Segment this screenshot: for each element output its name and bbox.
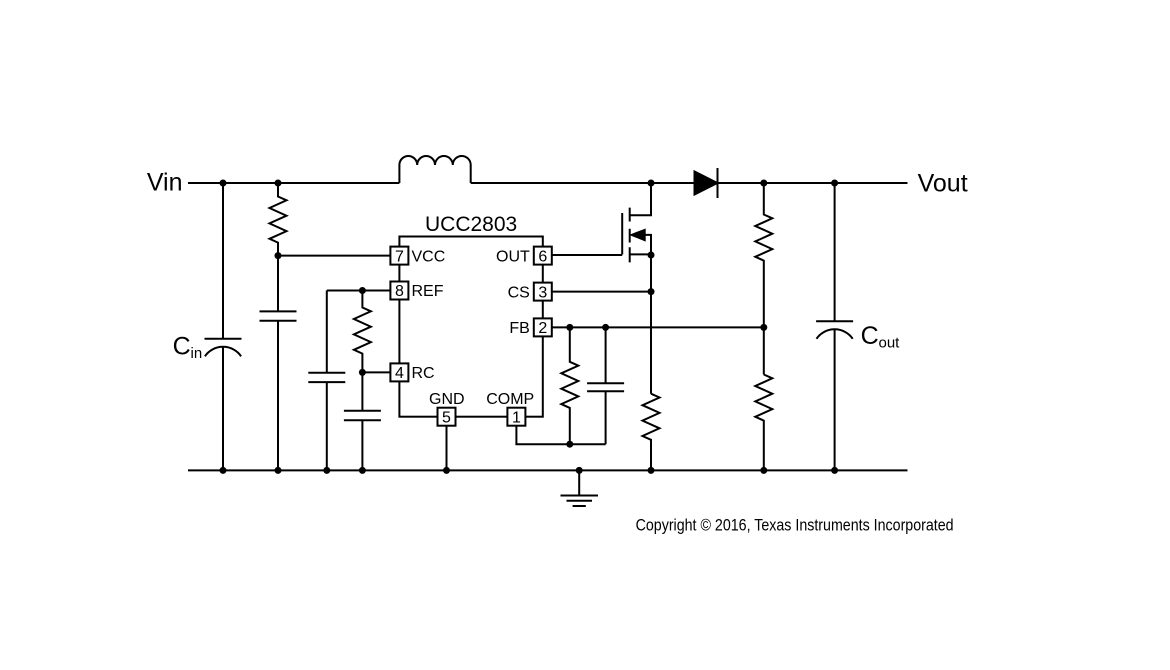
- node RC junction: [359, 369, 366, 376]
- wire GND pin 5 to rail: [446, 426, 448, 471]
- svg-text:REF: REF: [412, 283, 444, 300]
- node comp bottom junction: [566, 441, 573, 448]
- node Vin-Cin junction: [220, 180, 227, 187]
- svg-text:Vout: Vout: [918, 170, 968, 198]
- wire ground rail: [188, 469, 908, 471]
- capacitor VCC bypass: [260, 311, 297, 320]
- pin 4 box: [390, 363, 408, 381]
- svg-text:UCC2803: UCC2803: [425, 213, 517, 236]
- junction dots: [220, 180, 839, 474]
- op-amp U1 UCC2803 outline: [399, 237, 542, 417]
- node rail Cout junction: [831, 467, 838, 474]
- node FB-CF junction: [602, 324, 609, 331]
- pin 8 box: [390, 282, 408, 300]
- pin boxes: [390, 247, 551, 426]
- node Vout Cout junction: [831, 180, 838, 187]
- wire COMP pin 1 down and right: [516, 426, 605, 445]
- node rail divider junction: [760, 467, 767, 474]
- svg-text:OUT: OUT: [496, 248, 530, 265]
- svg-text:VCC: VCC: [412, 248, 446, 265]
- node VCC junction: [275, 252, 282, 259]
- capacitor Cout: [834, 183, 836, 321]
- capacitor Cin: [222, 183, 224, 339]
- pin 1 box: [507, 408, 525, 426]
- pin numbers and labels: [395, 248, 547, 426]
- resistor comp RF: [561, 327, 578, 444]
- svg-text:5: 5: [442, 409, 451, 426]
- capacitor comp CF: [587, 327, 624, 444]
- svg-text:CS: CS: [508, 284, 530, 301]
- wire VCC node to pin 7: [278, 255, 390, 257]
- ground symbol: [561, 470, 599, 506]
- capacitor REF bypass: [308, 291, 345, 471]
- node FB-RF junction: [566, 324, 573, 331]
- pin 2 box: [534, 318, 552, 336]
- wire VCC cap to ground rail: [277, 321, 279, 471]
- pin 6 box: [534, 247, 552, 265]
- wire FB pin 2 to divider: [552, 326, 764, 328]
- pin 7 box: [390, 247, 408, 265]
- resistor current sense: [643, 394, 660, 471]
- pin 5 box: [438, 408, 456, 426]
- node drain junction: [648, 180, 655, 187]
- node rail GND-pin junction: [443, 467, 450, 474]
- pin 3 box: [534, 283, 552, 301]
- resistor divider lower: [755, 375, 772, 471]
- svg-text:in: in: [191, 345, 203, 362]
- capacitor CT (RC to ground): [344, 411, 381, 471]
- wire inductor to diode anode: [471, 182, 695, 184]
- svg-text:C: C: [173, 333, 191, 361]
- svg-text:FB: FB: [509, 320, 529, 337]
- svg-text:COMP: COMP: [486, 391, 534, 408]
- node Vin-R junction: [275, 180, 282, 187]
- node rail sense junction: [648, 467, 655, 474]
- svg-text:7: 7: [395, 248, 404, 265]
- node CS junction: [648, 288, 655, 295]
- svg-text:GND: GND: [429, 391, 465, 408]
- wire top rail Vin to inductor: [188, 182, 399, 184]
- node rail REF-cap junction: [323, 467, 330, 474]
- inductor L1: [399, 156, 470, 183]
- svg-text:RC: RC: [412, 365, 435, 382]
- svg-text:2: 2: [538, 320, 547, 337]
- svg-text:3: 3: [538, 284, 547, 301]
- node Vout divider junction: [760, 180, 767, 187]
- resistor RT (REF to RC): [354, 291, 371, 411]
- wire CS pin 3 to source: [552, 291, 651, 293]
- svg-text:Copyright © 2016, Texas Instru: Copyright © 2016, Texas Instruments Inco…: [636, 515, 954, 534]
- node rail Cin junction: [220, 467, 227, 474]
- svg-text:out: out: [879, 334, 901, 351]
- wire REF pin 8 to left: [327, 290, 391, 292]
- node rail earth junction: [576, 467, 583, 474]
- diode D1: [695, 172, 718, 195]
- transistor Q1 MOSFET: [621, 213, 623, 255]
- wire diode cathode to Vout: [718, 182, 908, 184]
- svg-text:1: 1: [512, 409, 521, 426]
- node REF junction: [359, 287, 366, 294]
- node FB tap junction: [760, 324, 767, 331]
- wire RC node to pin 4: [362, 371, 390, 373]
- wire OUT pin 6 to gate: [552, 254, 622, 256]
- svg-text:6: 6: [538, 248, 547, 265]
- resistor VCC bias: [270, 183, 287, 311]
- wire source node down through sense resistor: [650, 255, 652, 394]
- node rail VCC-cap junction: [275, 467, 282, 474]
- svg-text:4: 4: [395, 365, 404, 382]
- resistor divider upper: [755, 183, 772, 375]
- svg-text:Vin: Vin: [147, 169, 183, 197]
- node rail CT junction: [359, 467, 366, 474]
- node source junction: [648, 252, 655, 259]
- svg-text:C: C: [861, 322, 879, 350]
- svg-text:8: 8: [395, 283, 404, 300]
